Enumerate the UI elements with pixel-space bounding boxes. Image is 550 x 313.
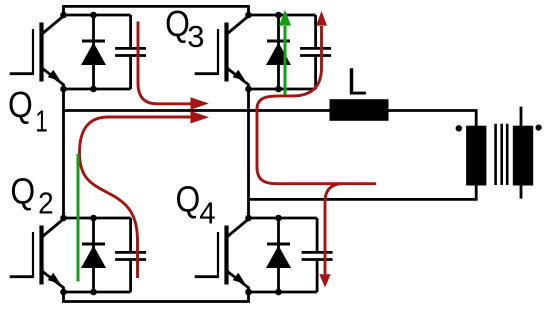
wire Q2 module bottom [64,291,131,294]
node Q2 collector [60,215,67,222]
svg-text:Q: Q [176,180,201,220]
capacitor C2 (snubber of Q2) [115,218,146,292]
transformer T1 primary winding [466,126,486,186]
node red arrowhead down at C4 [319,274,330,287]
svg-text:Q: Q [10,172,35,212]
wire green current line at Q2 leg [77,154,80,282]
capacitor C1 (snubber of Q1) [115,15,146,89]
label Q4 [176,180,216,231]
node D4 cathode [275,215,282,222]
node D1 cathode [90,12,97,19]
wire secondary top lead [520,107,523,126]
svg-text:L: L [347,60,367,103]
node Q4 emitter [245,289,252,296]
wire top DC rail [64,6,249,15]
wire red current path branch through C4 (down arrow) [325,184,341,275]
node Q2 emitter [60,289,67,296]
transistor Q2 (IGBT) [10,219,64,292]
node D3 anode [275,86,282,93]
node Q1 emitter [60,86,67,93]
node D4 anode [275,289,282,296]
wire Q4 module top [249,217,318,220]
node D3 cathode [275,12,282,19]
svg-text:Q: Q [8,85,33,125]
wire bottom DC rail [64,292,249,302]
label Q3 [165,4,204,54]
svg-text:3: 3 [187,19,204,54]
wire Q3 module top [249,14,316,17]
node red arrowhead up at C3 [316,11,327,26]
inductor L (resonant inductor) [330,99,389,121]
transformer T1 secondary winding [513,126,533,186]
wire secondary bottom lead [520,185,523,199]
wire Q3 module bottom [249,88,316,91]
label Q2 [10,172,53,221]
wire Q1 module bottom [64,88,131,91]
node primary polarity dot [456,125,462,131]
diode D1 (anti-parallel with Q1) [81,15,106,89]
node Q1 collector [60,12,67,19]
wire right leg midpoint (Q3 emitter to Q4 collector) [247,89,250,218]
wire red current path from C2 to output (S-curve, arrow right) [80,117,192,278]
diode D4 (anti-parallel with Q4) [266,218,291,292]
wire Q1 module top [64,14,131,17]
label Q1 [8,85,48,138]
wire transformer primary bottom return rail [249,184,477,199]
wire green current arrow through D3 (up) [284,26,287,95]
transistor Q4 (IGBT) [195,219,249,292]
transistor Q3 (IGBT) [195,16,249,89]
node secondary polarity dot [536,125,542,131]
capacitor C4 (snubber of Q4) [302,218,333,292]
node D1 anode [90,86,97,93]
node Q3 collector [245,12,252,19]
node red arrowhead right lower [191,111,210,124]
diode D2 (anti-parallel with Q2) [81,218,106,292]
node D2 anode [90,289,97,296]
node Q4 collector [245,215,252,222]
transistor Q1 (IGBT) [10,16,64,89]
wire red current path from C1 to output (curved, arrow right) [138,22,191,104]
svg-text:Q: Q [165,4,190,44]
svg-text:2: 2 [38,186,54,221]
svg-text:4: 4 [199,197,215,231]
diode D3 (anti-parallel with Q3) [266,15,291,89]
wire Q2 module top [64,217,131,220]
node Q3 emitter [245,86,252,93]
wire Q4 module bottom [249,291,318,294]
node red arrowhead right upper [191,97,209,110]
wire red current path through C3 (up arrow) [257,26,376,184]
wire left leg midpoint (Q1 emitter to Q2 collector) [62,89,65,218]
node green arrowhead up at D3 [279,10,291,26]
svg-text:1: 1 [35,103,48,138]
node D2 cathode [90,215,97,222]
capacitor C3 (snubber of Q3) [300,15,331,89]
transformer T1 core [496,124,508,185]
wire output rail to inductor and transformer primary top [64,111,477,127]
